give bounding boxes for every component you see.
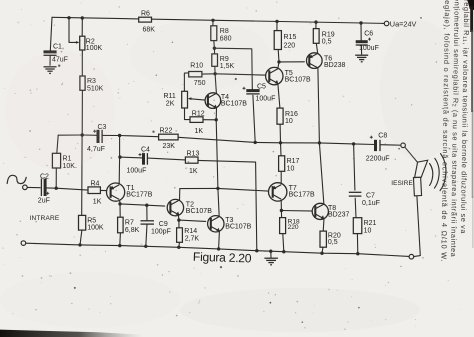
node junction T7 collector/R18/T8 base bbox=[280, 209, 283, 212]
transistor T2 BC107B bbox=[167, 199, 212, 215]
svg-text:R19: R19 bbox=[322, 31, 335, 38]
node junction T1 collector bbox=[118, 202, 121, 205]
wire T3 collector bbox=[218, 188, 219, 216]
wire T4 base wiper bbox=[189, 99, 208, 101]
svg-text:BC177B: BC177B bbox=[289, 192, 315, 199]
wire R15 top bbox=[276, 21, 278, 30]
wire T5/T6 base wire bbox=[279, 61, 304, 63]
svg-text:C8: C8 bbox=[378, 133, 387, 140]
svg-text:C1,: C1, bbox=[53, 44, 64, 51]
wire VAS node to T7 base bbox=[218, 188, 273, 191]
resistor R16 10 bbox=[277, 108, 283, 124]
svg-text:2,7K: 2,7K bbox=[185, 236, 200, 243]
transistor T3 BC107B bbox=[208, 216, 252, 232]
svg-text:R4: R4 bbox=[91, 180, 100, 187]
wire R18 top bbox=[280, 211, 282, 218]
wire R12 right bbox=[203, 119, 216, 121]
wire R11 to R12 corner bbox=[185, 108, 190, 120]
wire input terminal to C2 bbox=[27, 186, 40, 188]
svg-text:R21: R21 bbox=[364, 220, 377, 227]
scan artifact bottom-left wedge bbox=[0, 330, 143, 337]
svg-text:BD237: BD237 bbox=[328, 212, 350, 219]
node junction T2 emitter bbox=[177, 218, 180, 221]
resistor R21 10 bbox=[353, 218, 362, 234]
resistor R6 68K bbox=[139, 17, 152, 22]
wire R4 to T1 base bbox=[101, 189, 111, 191]
wire output rail mid bbox=[281, 142, 320, 144]
svg-text:R5: R5 bbox=[87, 217, 96, 224]
svg-text:BD238: BD238 bbox=[324, 62, 346, 69]
node junction R14 ground bbox=[177, 246, 180, 249]
resistor R9 1.5K bbox=[212, 54, 218, 66]
node divider junction A bbox=[81, 133, 84, 136]
svg-text:100K: 100K bbox=[86, 45, 103, 52]
wire R1 bottom bbox=[55, 168, 57, 188]
wire C6 top bbox=[360, 23, 362, 41]
transistor T8 BD237 bbox=[312, 203, 349, 219]
wire T6 collector down bbox=[318, 68, 320, 143]
transistor T1 BC177B bbox=[107, 183, 153, 201]
wire T4 emitter chain bbox=[216, 120, 218, 189]
wire C5 branch bbox=[214, 48, 252, 89]
wire C3 right segment bbox=[103, 134, 120, 136]
svg-text:R14: R14 bbox=[184, 228, 197, 235]
node junction R19 rail bbox=[314, 20, 317, 23]
wire C4 left bbox=[120, 156, 143, 159]
supply terminal Ua bbox=[384, 21, 389, 26]
output terminal bottom bbox=[409, 254, 414, 259]
node junction output T6/T8 bbox=[318, 141, 321, 144]
ground symbol main bbox=[264, 258, 278, 265]
svg-text:0,5: 0,5 bbox=[322, 38, 332, 45]
resistor R8 680 bbox=[211, 26, 217, 41]
node junction R5 ground bbox=[78, 243, 81, 246]
svg-text:BC107B: BC107B bbox=[221, 101, 247, 108]
svg-text:6,8K: 6,8K bbox=[125, 227, 140, 234]
wire node to T5 base bbox=[215, 74, 269, 75]
resistor R19 0.5 bbox=[313, 29, 319, 44]
svg-text:R11: R11 bbox=[164, 93, 176, 100]
wire T5 emitter down bbox=[278, 84, 280, 108]
svg-text:1K: 1K bbox=[195, 128, 204, 135]
wire R10 right to node bbox=[202, 73, 215, 75]
scan artifact right edge bbox=[467, 0, 474, 248]
wire R9 top bbox=[213, 48, 215, 54]
wire T4 emitter down bbox=[215, 108, 217, 120]
resistor R22 23K bbox=[159, 134, 179, 140]
wire output rail left bbox=[255, 141, 280, 143]
resistor R4 1K bbox=[88, 187, 100, 194]
wire C9 stem bottom bbox=[146, 224, 147, 246]
wire output terminal to speaker bbox=[405, 147, 418, 162]
svg-text:1K: 1K bbox=[189, 168, 198, 175]
svg-text:2K: 2K bbox=[166, 101, 175, 108]
resistor R13 1K bbox=[185, 157, 198, 163]
wire C8 to output terminal bbox=[380, 144, 400, 147]
node junction R12/T4 emitter bbox=[215, 118, 218, 121]
svg-text:10: 10 bbox=[285, 118, 293, 125]
wire top supply rail bbox=[52, 17, 384, 23]
wire T1 emitter up bbox=[118, 136, 120, 184]
rotated book text right margin bbox=[439, 0, 471, 262]
wire R18 bottom bbox=[283, 234, 284, 252]
node junction T4 collector node bbox=[213, 72, 216, 75]
wire R7 top bbox=[119, 204, 121, 217]
wire R17 to T7 emitter bbox=[280, 171, 282, 183]
svg-text:220: 220 bbox=[284, 42, 296, 49]
speaker bbox=[413, 154, 446, 196]
svg-text:100K: 100K bbox=[87, 224, 104, 231]
wire R8 top bbox=[212, 20, 214, 26]
wire R15 bottom bbox=[277, 50, 280, 62]
ground symbol C1 bbox=[49, 55, 51, 65]
potentiometer R11 2K bbox=[182, 91, 188, 108]
wire T5 collector up bbox=[278, 62, 279, 68]
wire bottom rail bbox=[26, 243, 409, 256]
wire T2 collector up bbox=[180, 188, 218, 200]
node junction R2 wiper tap bbox=[67, 16, 70, 19]
node junction output left bbox=[254, 141, 257, 144]
svg-text:C9: C9 bbox=[159, 221, 168, 228]
resistor R1 10K bbox=[52, 153, 60, 168]
node junction C9 ground bbox=[144, 245, 147, 248]
wire R2 wiper from rail bbox=[69, 18, 77, 43]
resistor R3 510K bbox=[80, 76, 85, 90]
node junction R13 ground bbox=[255, 249, 258, 252]
svg-text:R6: R6 bbox=[141, 11, 150, 18]
svg-text:R12: R12 bbox=[192, 110, 205, 117]
svg-text:R17: R17 bbox=[287, 158, 300, 165]
output terminal IESIRE bbox=[401, 143, 406, 148]
node junction R7 ground bbox=[118, 244, 121, 247]
svg-text:23K: 23K bbox=[163, 143, 176, 150]
wire rail to R2 bbox=[81, 18, 83, 36]
node junction R8/R9/C5 bbox=[213, 47, 216, 50]
svg-text:2uF: 2uF bbox=[38, 197, 50, 204]
wire T8 emitter down bbox=[322, 219, 325, 232]
wire R8 bottom bbox=[213, 41, 216, 49]
resistor R17 10 bbox=[279, 156, 285, 172]
wire T2 emitter down bbox=[177, 215, 180, 220]
wire R3 to divider node bbox=[81, 90, 83, 135]
wire R1 top bbox=[57, 135, 58, 153]
node top rail / C1 branch bbox=[50, 17, 52, 50]
wire C7 to R21 bbox=[354, 198, 357, 218]
wire T1 collector down bbox=[119, 201, 121, 204]
wire T8 collector up bbox=[319, 143, 324, 204]
wire R22 left segment bbox=[120, 136, 159, 137]
wire C2 to input node bbox=[46, 187, 56, 189]
node junction R20 ground bbox=[320, 252, 323, 255]
svg-text:10: 10 bbox=[364, 227, 372, 234]
svg-text:R16: R16 bbox=[285, 111, 298, 118]
wire R22 right segment bbox=[178, 137, 255, 142]
svg-text:R13: R13 bbox=[187, 151, 200, 158]
wire R16 bottom bbox=[279, 124, 281, 143]
resistor R12 1K bbox=[190, 117, 203, 123]
capacitor C2 2uF bbox=[41, 179, 45, 196]
node junction T1 emitter node bbox=[118, 134, 121, 137]
svg-text:Figura 2.20: Figura 2.20 bbox=[193, 250, 252, 266]
wire C3 feedback wire bbox=[58, 134, 82, 136]
resistor R15 220 bbox=[274, 31, 281, 50]
wire R5 to bottom rail bbox=[80, 230, 82, 245]
resistor R5 100K bbox=[79, 215, 86, 230]
svg-text:0,1uF: 0,1uF bbox=[362, 200, 380, 207]
capacitor C1 47uF bbox=[44, 52, 57, 55]
svg-text:INTRARE: INTRARE bbox=[30, 215, 60, 222]
svg-text:100pF: 100pF bbox=[151, 229, 171, 236]
wire R7 bottom bbox=[119, 233, 122, 246]
wire R9 bottom bbox=[214, 66, 216, 74]
wire R21 bottom bbox=[356, 234, 358, 254]
wire C7 top bbox=[354, 144, 355, 190]
svg-text:BC107B: BC107B bbox=[285, 76, 311, 83]
wire C3 left segment bbox=[82, 134, 97, 136]
wire R17 top bbox=[280, 143, 283, 156]
svg-text:C5: C5 bbox=[257, 84, 266, 91]
svg-text:R22: R22 bbox=[160, 128, 173, 135]
wire input node to R4 bbox=[56, 188, 88, 190]
node junction R8 rail bbox=[211, 19, 214, 22]
capacitor C9 100pF bbox=[141, 221, 155, 224]
wire C5 to output node bbox=[253, 95, 255, 142]
potentiometer R2 100K bbox=[80, 36, 85, 50]
input terminal bottom bbox=[21, 241, 26, 246]
wire T7/T8 base wire bbox=[281, 210, 315, 213]
node junction R18 ground bbox=[282, 250, 285, 253]
transistor T6 BD238 bbox=[307, 53, 346, 69]
wire T3 emitter to ground bbox=[218, 231, 221, 249]
svg-text:10: 10 bbox=[287, 165, 295, 172]
node junction C4 tap bbox=[118, 155, 121, 158]
node input junction bbox=[55, 187, 58, 190]
capacitor C4 100uF bbox=[144, 153, 148, 165]
wire T1 collector to T2 base bbox=[120, 204, 165, 206]
svg-text:2200uF: 2200uF bbox=[366, 155, 390, 162]
wire R2 to R3 bbox=[81, 50, 83, 76]
wire C6 to ground bbox=[360, 46, 362, 55]
wire divider to R5 bbox=[81, 135, 83, 215]
svg-text:100uF: 100uF bbox=[256, 95, 276, 102]
node junction R15 rail bbox=[275, 20, 278, 23]
resistor R14 2.7K bbox=[177, 228, 183, 243]
svg-text:BC177B: BC177B bbox=[126, 192, 152, 199]
node junction output C7 bbox=[352, 142, 355, 145]
wire R14 bottom bbox=[178, 242, 181, 247]
resistor R7 6.8K bbox=[118, 217, 124, 233]
transistor T7 BC177B bbox=[269, 183, 316, 201]
wire speaker to bottom rail bbox=[414, 196, 421, 257]
ground symbol C6 bbox=[355, 55, 368, 62]
wire T7 collector down bbox=[280, 201, 282, 211]
wire C9 stem top bbox=[146, 205, 148, 220]
wire C4 to R13 bbox=[148, 158, 186, 160]
capacitor C7 0.1uF bbox=[349, 192, 362, 196]
wire output rail right bbox=[319, 143, 353, 144]
wire R19 to T6 emitter bbox=[316, 43, 317, 53]
svg-text:C7: C7 bbox=[366, 192, 375, 199]
wire R10 left corner bbox=[184, 73, 188, 91]
transistor T4 BC107B bbox=[205, 93, 247, 109]
node junction T3 ground bbox=[217, 247, 220, 250]
svg-text:BC107B: BC107B bbox=[225, 223, 251, 230]
wire output to C8 bbox=[354, 143, 375, 146]
node junction T5 collector/R15 bbox=[277, 60, 280, 63]
node junction C9 tap bbox=[145, 204, 148, 207]
node junction ground symbol tap bbox=[269, 250, 272, 253]
svg-text:0,5: 0,5 bbox=[328, 239, 338, 246]
svg-text:100uF: 100uF bbox=[127, 167, 147, 174]
wire R13 to ground drop bbox=[198, 160, 257, 250]
wire R14 top bbox=[178, 220, 180, 228]
wire R19 top bbox=[315, 22, 317, 29]
transistor T5 BC107B bbox=[266, 67, 311, 84]
wire R20 bottom bbox=[322, 247, 323, 253]
svg-text:220: 220 bbox=[288, 224, 299, 231]
input source squiggle bbox=[7, 175, 26, 183]
capacitor C3 4.7uF bbox=[98, 130, 102, 143]
wire T4 collector up bbox=[215, 74, 216, 94]
capacitor C5 100uF bbox=[246, 91, 259, 94]
svg-text:100uF: 100uF bbox=[359, 45, 379, 52]
node junction VAS node bbox=[216, 187, 219, 190]
capacitor C6 100uF bbox=[356, 42, 368, 45]
wire ground stub bbox=[270, 251, 272, 257]
svg-text:C6: C6 bbox=[364, 31, 373, 38]
node junction C6 rail bbox=[359, 21, 362, 24]
resistor R20 0.5 bbox=[320, 231, 326, 247]
svg-text:BC107B: BC107B bbox=[186, 208, 212, 215]
input terminal INTRARE bbox=[23, 185, 28, 190]
resistor R18 220 bbox=[280, 218, 286, 234]
svg-text:1K: 1K bbox=[93, 198, 102, 205]
wire T2 emitter to T3 base bbox=[179, 220, 206, 221]
svg-text:C2: C2 bbox=[40, 174, 49, 181]
resistor R10 750 bbox=[189, 72, 202, 77]
node junction R2 top bbox=[81, 16, 84, 19]
capacitor C8 2200uF bbox=[376, 140, 381, 151]
node junction output mid R16/R17 bbox=[279, 141, 282, 144]
svg-text:IESIRE: IESIRE bbox=[391, 180, 413, 187]
svg-text:R7: R7 bbox=[125, 220, 134, 227]
svg-text:R15: R15 bbox=[284, 34, 297, 41]
node junction R21 ground bbox=[356, 252, 359, 255]
